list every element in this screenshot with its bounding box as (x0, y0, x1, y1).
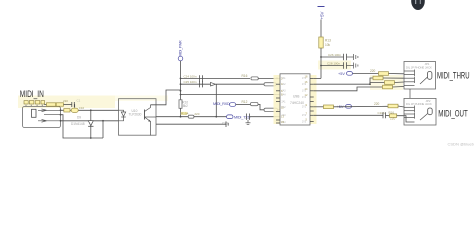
wire THRU box to OUT box (409, 89, 411, 98)
wire R14 to OUT (398, 106, 404, 107)
wire out row (334, 105, 389, 108)
wire J1 top row (44, 104, 46, 106)
connector J1 pad row (24, 101, 45, 104)
wire J1 cathode row to opto pin2 (61, 120, 119, 122)
jack J3 internal pins (404, 70, 428, 86)
resistor R14 (388, 104, 398, 108)
IC U9 74HC240 box (280, 74, 310, 125)
opto transistor base bar (144, 110, 146, 120)
IC right pin stubs (310, 78, 314, 121)
capacitor C28 (344, 62, 347, 68)
svg-text:MIDI_RXD: MIDI_RXD (213, 102, 230, 106)
port glyph out row (346, 105, 352, 109)
wire TXD row (156, 116, 188, 118)
svg-text:C10: C10 (79, 106, 85, 110)
selection tint MIDI_IN area (18, 96, 115, 102)
IC left pin numbers (281, 76, 284, 124)
junction rail y84.2 (180, 83, 182, 85)
svg-text:TLP2630: TLP2630 (129, 113, 142, 117)
junction rail y78.4 (180, 78, 182, 80)
wire IC pin y106.8 to R17 (314, 106, 324, 108)
svg-text:C11A: C11A (378, 111, 385, 115)
svg-text:MIDI_IN: MIDI_IN (20, 89, 44, 99)
resistor R11 (188, 115, 194, 118)
wire C23 to IC (250, 116, 281, 118)
svg-text:R16: R16 (242, 74, 248, 78)
svg-text:MIDI_TXD: MIDI_TXD (234, 115, 251, 119)
svg-text:74HC240: 74HC240 (290, 101, 304, 105)
capacitor C24 (200, 75, 203, 81)
svg-text:C28 100n: C28 100n (327, 62, 340, 66)
svg-text:R13: R13 (325, 38, 331, 42)
svg-text:C26 100n: C26 100n (328, 53, 341, 57)
wire IC pin y90.8 to THRU (314, 87, 383, 91)
port arrow row2 (211, 82, 216, 86)
wire branch C28 (321, 65, 344, 67)
svg-text:CSDN @bluebit_cn: CSDN @bluebit_cn (448, 141, 474, 146)
jack J3 bush (428, 72, 432, 80)
junction R10 TXD row (180, 116, 182, 118)
optocoupler U10 box (119, 99, 157, 136)
wire C14 down (73, 105, 75, 111)
ground C23 (247, 120, 249, 123)
svg-text:C25 100n: C25 100n (184, 80, 197, 84)
svg-text:10k: 10k (325, 43, 331, 47)
svg-text:1Y1: 1Y1 (302, 78, 307, 80)
svg-text:220: 220 (63, 99, 68, 103)
jack J4 internal pins (404, 106, 428, 121)
svg-text:1Y2: 1Y2 (302, 84, 307, 86)
end tick (226, 121, 228, 127)
wire R10 bottom (180, 108, 182, 116)
wire cap to R16 (210, 77, 250, 79)
wire opto pin8 up to IC (151, 90, 181, 105)
junction rail y90.8 (180, 90, 182, 92)
svg-text:MIDI_THRU: MIDI_THRU (437, 70, 470, 80)
resistor R12B pill (264, 108, 278, 111)
capacitor C11 (383, 112, 386, 118)
wire R22 to THRU (393, 86, 405, 89)
svg-text:DIL JP PHONE JACK: DIL JP PHONE JACK (406, 102, 432, 106)
connector J1 body (32, 109, 37, 117)
resistor R21 (385, 81, 395, 85)
diode D9 (88, 121, 93, 126)
svg-text:8k2: 8k2 (183, 104, 188, 108)
svg-text:220: 220 (370, 69, 376, 73)
wire R16 to IC (258, 77, 280, 79)
port glyph +5V thru (347, 72, 353, 76)
wire VCC rail vertical (180, 61, 182, 100)
wire C26 to gnd (347, 56, 354, 58)
resistor R10 (179, 100, 182, 109)
wire R19 to THRU (389, 73, 405, 75)
opto base out wire (145, 116, 157, 118)
opto transistor collector (145, 105, 151, 112)
IC pin column tints (274, 75, 281, 124)
svg-text:DIL JP PHONE JACK: DIL JP PHONE JACK (406, 65, 432, 69)
port glyph MIDI_RXD (230, 103, 236, 107)
wire rail R13 down (320, 48, 322, 78)
connector J1 MIDI_IN box (23, 107, 61, 128)
junction (102, 120, 104, 122)
svg-text:220: 220 (374, 102, 380, 106)
opto transistor emitter (145, 117, 151, 135)
junction y53 (320, 56, 322, 58)
junction cluster (369, 83, 371, 85)
junction y67 (320, 65, 322, 67)
resistor R6 (56, 103, 63, 106)
wire +5V down (320, 20, 322, 38)
net label circle (178, 56, 183, 61)
ferrite L2 pill (71, 108, 78, 112)
opto LED anode wire (119, 110, 124, 112)
svg-text:2A1: 2A1 (282, 100, 287, 103)
wire IC pin to THRU cluster (314, 83, 370, 85)
svg-text:+5V: +5V (338, 72, 345, 76)
connector J1 internal wire 3 (38, 120, 61, 122)
wire C28 to gnd (347, 65, 354, 67)
svg-text:C1: C1 (77, 99, 81, 103)
wire jog up (370, 78, 373, 84)
port glyph MIDI_TXD (227, 115, 234, 119)
connector J1 internal wire 2 (44, 114, 61, 116)
wire rail to IC VCC pin (314, 77, 321, 79)
capacitor C25 (200, 81, 203, 87)
wire row C24 (181, 77, 211, 79)
capacitor C26 (344, 54, 347, 60)
capacitor C23 at IC pin (247, 114, 250, 120)
opto LED cathode wire (119, 117, 124, 121)
wire row C25 (181, 83, 211, 85)
ferrite L1 (64, 109, 70, 112)
svg-text:R10A: R10A (181, 112, 189, 116)
svg-text:MIDI_PWR: MIDI_PWR (179, 40, 183, 57)
selection tint C28 area (318, 61, 351, 70)
resistor R15 (264, 83, 276, 86)
wire arrow to R15 (216, 83, 265, 85)
resistor R18 (390, 114, 397, 118)
svg-text:2Y1: 2Y1 (302, 107, 307, 109)
svg-text:JP1: JP1 (425, 62, 430, 66)
wire R12 jog down (258, 104, 264, 109)
power +5V symbol top (320, 11, 325, 19)
wire R20 to THRU (383, 77, 404, 79)
svg-text:D9: D9 (77, 115, 81, 119)
selection tint THRU resistor area (370, 75, 403, 90)
resistor R22 (383, 85, 393, 89)
riser to cathode row (102, 121, 104, 138)
svg-text:C23: C23 (222, 122, 228, 126)
svg-text:+5V: +5V (320, 11, 325, 19)
label R10A highlighted (181, 112, 188, 115)
wire R6 to C14 (64, 104, 72, 106)
wire R11 to port (194, 116, 227, 118)
IC inner pin names (282, 77, 307, 124)
wire port tee down (215, 84, 217, 117)
long return wire bottom (156, 123, 226, 125)
junction diode bottom (90, 137, 92, 139)
junction dots at edge (60, 109, 62, 111)
connector J3 MIDI_THRU box (404, 62, 436, 90)
wire IC pin y115.3 to C11 (314, 114, 383, 116)
svg-text:2Y2: 2Y2 (302, 115, 307, 117)
connector J1 pin arrow 2 (42, 119, 47, 122)
ground C28 (354, 63, 358, 69)
capacitor C14 (72, 102, 75, 107)
dark avatar icon top right (411, 0, 425, 10)
resistor R12 (251, 103, 259, 106)
wire diode vertical (90, 110, 92, 138)
svg-text:U9B: U9B (293, 95, 300, 99)
connector J4 MIDI_OUT box (404, 98, 436, 125)
wire pill to IC (278, 109, 281, 111)
IC left pin stubs (276, 84, 280, 123)
wire J1 mid pin down (61, 115, 104, 138)
resistor R16 (251, 77, 258, 80)
wire RXD to R12 (236, 103, 251, 105)
wire opto emitter to return rail (150, 134, 152, 137)
resistor R17 (324, 105, 334, 109)
wire C11 to R18 (386, 115, 390, 117)
svg-text:MIDI_OUT: MIDI_OUT (438, 108, 468, 118)
svg-text:2Y3: 2Y3 (302, 121, 307, 123)
pad pin numbers (26, 105, 43, 106)
connector J1 internal wire 1 (38, 109, 61, 111)
wire R21 to THRU (395, 81, 405, 84)
resistor R13 (319, 37, 323, 48)
wire rail to IC pin4 (181, 94, 281, 96)
wire J1 row to opto pin1 (61, 109, 119, 111)
jack J4 bush (428, 108, 433, 115)
wire +5V port to R19 (353, 73, 380, 75)
svg-text:220: 220 (194, 112, 199, 116)
svg-text:1Y3: 1Y3 (302, 91, 307, 93)
node diode top (90, 109, 92, 111)
connector J1 pin arrow 1 (42, 109, 47, 112)
resistor R20 (373, 76, 383, 80)
opto LED (121, 112, 125, 117)
wire R18 to OUT (397, 116, 415, 122)
svg-text:D1N4148: D1N4148 (71, 122, 85, 126)
svg-text:C24 100n: C24 100n (184, 74, 197, 78)
svg-text:R12: R12 (242, 100, 248, 104)
wire to R21 (370, 83, 385, 85)
IC right pin numbers (305, 74, 308, 121)
svg-text:220: 220 (390, 116, 396, 120)
resistor R5 (47, 103, 56, 106)
resistor R19 (379, 72, 389, 76)
junction rail y94.5 (180, 94, 182, 96)
svg-text:1Y4: 1Y4 (302, 97, 307, 99)
ground C26 (354, 54, 358, 60)
wire branch C26 (321, 56, 344, 58)
